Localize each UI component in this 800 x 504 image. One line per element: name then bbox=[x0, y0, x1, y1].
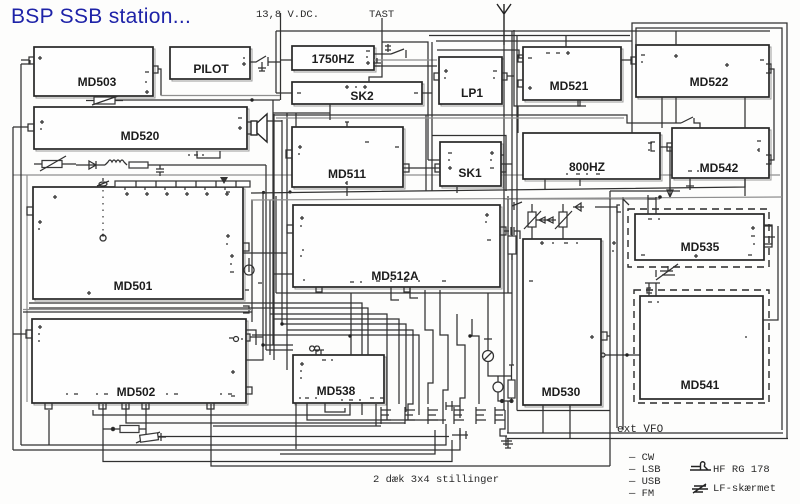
wire vertical 512 top bbox=[511, 31, 513, 365]
speaker SP1 bbox=[247, 114, 267, 142]
antenna feed down bbox=[503, 45, 505, 410]
wire MD521 shield to 800HZ bbox=[517, 106, 519, 133]
pin hook MD522 left bbox=[631, 57, 636, 64]
junction dot 290 bbox=[288, 190, 291, 193]
wire vertical 517 top bbox=[517, 35, 610, 411]
antenna bbox=[497, 4, 511, 45]
svg-text:800HZ: 800HZ bbox=[569, 160, 605, 174]
wire 1750HZ left pin bbox=[281, 59, 292, 61]
wire MD535 right loop bbox=[764, 226, 772, 244]
pin hook 800HZ right bbox=[651, 142, 655, 151]
tick marks MD535 bbox=[641, 219, 755, 258]
wire MD521 to MD522 bbox=[621, 59, 631, 61]
wire MD522 top drop bbox=[675, 31, 677, 45]
block MD511 bbox=[292, 127, 405, 189]
svg-text:MD530: MD530 bbox=[542, 385, 581, 399]
wire vertical 282 bbox=[281, 120, 283, 324]
potentiometer under MD520 bbox=[34, 156, 76, 171]
wire SK2 right connect bbox=[422, 92, 432, 94]
bus under MD520 (behind blocks) bbox=[13, 174, 780, 176]
pin hook MD542 right bbox=[766, 155, 771, 164]
wire vertical 252 bbox=[251, 200, 253, 322]
dotted gang line bbox=[102, 190, 104, 232]
wire bus y118 gray bbox=[276, 117, 624, 119]
wire vertical 610 bbox=[610, 191, 680, 466]
shield box SK1 bbox=[432, 136, 506, 194]
wire vertical 617 bbox=[595, 207, 617, 428]
wire MD511 top pin bbox=[345, 122, 349, 127]
switch to MD542 top bbox=[681, 117, 700, 128]
pin hook MD522 right bbox=[766, 64, 771, 73]
svg-text:MD535: MD535 bbox=[681, 240, 720, 254]
svg-text:— USB: — USB bbox=[628, 476, 661, 488]
pin hook MD512A left bbox=[287, 225, 293, 233]
wire left edge outer bbox=[20, 64, 22, 445]
capacitor C2 bbox=[156, 165, 164, 176]
diode D1 bbox=[76, 161, 105, 169]
wires MD541 top bbox=[645, 270, 660, 296]
wires MD535 area bbox=[648, 195, 775, 280]
wire PILOT right switch bbox=[250, 56, 280, 71]
svg-text:MD501: MD501 bbox=[114, 279, 153, 293]
wire MD501 to MD512A bbox=[243, 252, 287, 254]
svg-text:HF RG 178: HF RG 178 bbox=[713, 464, 770, 476]
wire MD512A right circuit bbox=[504, 227, 520, 239]
tick marks SK2 bbox=[297, 85, 418, 93]
switch after 1750HZ bbox=[374, 44, 406, 58]
pin hook MD501 right bbox=[243, 243, 249, 251]
pin hooks MD502 bottom bbox=[45, 403, 214, 409]
svg-text:MD542: MD542 bbox=[700, 161, 739, 175]
block MD512A bbox=[293, 205, 502, 289]
shield box MD502 top dark bbox=[23, 311, 252, 313]
shield box MD512A left bbox=[275, 196, 277, 293]
pin hook MD512A right bbox=[500, 227, 506, 235]
pin hook MD501 left bbox=[27, 207, 33, 215]
wire SK2 bottom to MD511 bbox=[273, 104, 330, 120]
ground symbol bottom bbox=[503, 439, 513, 449]
tick marks MD530 bbox=[529, 241, 594, 339]
T-bar trimmer top bbox=[446, 401, 460, 411]
shield dashed box MD535 bbox=[628, 209, 769, 267]
T-bar trimmer mid bbox=[452, 430, 468, 440]
block MD535 bbox=[635, 214, 764, 260]
svg-text:— LSB: — LSB bbox=[628, 464, 661, 476]
wires right of SK1 bbox=[403, 42, 523, 191]
outer box bottom line2 bbox=[507, 438, 788, 440]
junction dot pilot bus bbox=[250, 98, 253, 101]
block MD503 bbox=[34, 47, 155, 98]
wire MD502 left stub bbox=[13, 333, 26, 335]
bus y198 gray bbox=[251, 197, 782, 200]
wire MD522 bottom drop2 bbox=[661, 97, 663, 128]
wire left outer vertical bbox=[12, 127, 14, 450]
tick marks 1750HZ bbox=[366, 51, 370, 65]
svg-text:MD538: MD538 bbox=[317, 384, 356, 398]
wire MD503 to PILOT step bbox=[153, 66, 161, 96]
svg-text:MD541: MD541 bbox=[681, 378, 720, 392]
connector hook ext VFO bbox=[500, 410, 507, 436]
wires MD538 bottom drops bbox=[307, 398, 446, 420]
pin hook MD503 left bbox=[21, 57, 34, 64]
shield box MD512A right bbox=[507, 196, 509, 293]
resistor under MD502 bbox=[103, 426, 166, 444]
junction dot 263 bbox=[262, 191, 265, 194]
wire left gray vertical bbox=[26, 175, 28, 402]
shield box MD521 bbox=[514, 30, 580, 106]
resistor right of MD512A bbox=[508, 230, 516, 260]
pin hook MD542 left bbox=[667, 143, 672, 151]
wire top to LP1 corner bbox=[382, 42, 428, 160]
wire bus y115 to MD542 bbox=[273, 115, 681, 123]
junction dot 800HZ bbox=[658, 195, 662, 199]
wire bus y40 bbox=[436, 40, 632, 42]
tick marks 800HZ bbox=[566, 143, 652, 174]
wire SK2 left pin bbox=[276, 92, 292, 94]
wire MD502 right hooks bbox=[246, 330, 256, 345]
svg-text:LF-skærmet: LF-skærmet bbox=[713, 483, 776, 495]
wire MD542 bottom pin bbox=[686, 178, 694, 190]
hook connector 623 bbox=[617, 205, 621, 212]
capacitor at SK2 top bbox=[373, 58, 381, 66]
wire vertical 287 bbox=[286, 113, 288, 370]
wire 800HZ right to MD542 left bbox=[660, 146, 672, 148]
svg-text:BSP SSB station...: BSP SSB station... bbox=[11, 5, 191, 28]
wire MD541 right to MD535 bbox=[763, 226, 778, 320]
tick marks MD542 bbox=[688, 141, 761, 171]
wire MD503 left pin bbox=[21, 60, 30, 64]
tick marks MD512A bbox=[300, 213, 491, 282]
pin hook MD530 right bbox=[601, 332, 610, 340]
svg-text:— CW: — CW bbox=[628, 452, 655, 464]
svg-text:PILOT: PILOT bbox=[193, 62, 229, 76]
outer shield box right bbox=[632, 23, 787, 439]
pin hook MD502 right bbox=[246, 387, 252, 394]
trimmer bank bbox=[381, 407, 505, 424]
resistor R2 bbox=[129, 162, 266, 168]
wire into MD538 left bbox=[263, 345, 293, 350]
coil bar above MD501 bbox=[115, 177, 250, 190]
meter M1 bbox=[483, 339, 512, 376]
wire vertical 270 bbox=[269, 200, 271, 355]
block LP1 bbox=[439, 57, 504, 106]
block MD502 bbox=[32, 319, 248, 405]
svg-text:MD503: MD503 bbox=[78, 75, 117, 89]
junction dots column bbox=[261, 322, 471, 346]
coil L1 bbox=[105, 160, 127, 165]
trimmer above MD501 bbox=[97, 178, 109, 186]
wires middle column verticals bbox=[376, 287, 488, 426]
wire top bus bbox=[276, 31, 770, 93]
wire into MD512A left low bbox=[274, 273, 293, 275]
shield dashed box MD541 bbox=[634, 290, 769, 403]
wire TAST down bbox=[369, 18, 382, 82]
pin hook MD501 right2 bbox=[243, 306, 249, 313]
wire 13,8V feed down bbox=[280, 13, 282, 100]
wires below MD512A fan bbox=[29, 287, 512, 390]
wire MD511 bottom pin bbox=[346, 187, 348, 196]
shield box MD511 bbox=[274, 114, 426, 360]
gang symbol bbox=[100, 234, 106, 241]
wire MD530 bottom stubs bbox=[543, 405, 570, 438]
arrow wire MD542 gap bbox=[667, 147, 673, 197]
wire MD522 bottom drop bbox=[675, 97, 677, 123]
legend LF-skaermet bbox=[692, 483, 776, 495]
tick marks MD535 outside bbox=[612, 241, 616, 251]
tick marks MD520 bbox=[40, 118, 242, 155]
svg-text:LP1: LP1 bbox=[461, 86, 483, 100]
pin hook MD521 left2 bbox=[518, 80, 523, 87]
wire MD502 to MD538 bbox=[246, 345, 263, 360]
block SK2 bbox=[292, 82, 424, 106]
svg-text:SK2: SK2 bbox=[350, 89, 374, 103]
wire MD521 bottom to 800HZ top bbox=[578, 100, 586, 106]
block MD538 bbox=[293, 355, 386, 405]
wire MD538 top hooks bbox=[310, 346, 324, 355]
tick marks MD522 bbox=[641, 54, 764, 67]
svg-text:— FM: — FM bbox=[628, 488, 654, 500]
wire MD522 right pin to column bbox=[769, 69, 774, 160]
tick marks MD521 bbox=[528, 51, 570, 90]
tick marks PILOT bbox=[242, 58, 246, 66]
block PILOT bbox=[170, 47, 252, 81]
svg-text:MD521: MD521 bbox=[550, 79, 589, 93]
wire vertical 623 with switch bbox=[623, 197, 629, 430]
outer box bottom line bbox=[507, 432, 783, 434]
tick marks MD511 bbox=[298, 142, 399, 185]
svg-text:13,8 V.DC.: 13,8 V.DC. bbox=[256, 9, 319, 21]
wire SK2 to LP1 bus2 bbox=[374, 65, 437, 67]
pin hook LP1 left bbox=[434, 73, 439, 80]
legend HF RG 178 bbox=[690, 462, 770, 476]
pin hook MD502 right upper bbox=[246, 334, 263, 341]
wire MD530 right connector bbox=[601, 353, 640, 357]
wires below MD502 fan bbox=[13, 403, 610, 466]
block 800HZ bbox=[523, 133, 662, 181]
wire MD542 top right drop bbox=[744, 97, 746, 128]
svg-text:MD522: MD522 bbox=[690, 75, 729, 89]
block SK1 bbox=[440, 142, 503, 188]
wire MD503 right to bus gray bbox=[161, 95, 280, 97]
pin hook SK1 right bbox=[501, 155, 506, 172]
shield box MD502 top gray bbox=[23, 309, 252, 311]
wire SK1 right to bus bbox=[506, 163, 512, 165]
wire vertical 263 bbox=[262, 192, 264, 345]
wire vertical 266 bbox=[265, 165, 267, 350]
pin hook MD511 left bbox=[286, 150, 292, 158]
svg-text:MD502: MD502 bbox=[117, 385, 156, 399]
tick marks MD501 bbox=[38, 192, 262, 295]
tick row MD501 top bbox=[125, 192, 229, 196]
pin hook MD521 left bbox=[518, 55, 523, 62]
pin hook MD511 right bbox=[403, 164, 409, 172]
svg-text:MD520: MD520 bbox=[121, 129, 160, 143]
VXO circuit above MD530 bbox=[505, 199, 660, 239]
lamp on MD502 right bbox=[234, 337, 244, 342]
pin hook MD520 left bbox=[13, 124, 34, 131]
tick marks SK1 bbox=[448, 151, 494, 170]
wire SK2 to LP1 bus bbox=[374, 59, 437, 61]
block MD522 bbox=[636, 45, 771, 99]
svg-text:MD511: MD511 bbox=[328, 167, 366, 181]
svg-text:2 dæk 3x4 stillinger: 2 dæk 3x4 stillinger bbox=[373, 474, 499, 486]
block MD530 bbox=[523, 239, 603, 407]
pin hook LP1 right bbox=[502, 73, 507, 80]
svg-text:ext VFO: ext VFO bbox=[617, 424, 664, 436]
tick marks MD541 bbox=[648, 302, 747, 337]
mic circle bbox=[493, 365, 515, 433]
lamp on MD501 edge bbox=[244, 258, 254, 275]
pin hook MD502 left bbox=[26, 330, 32, 338]
junction dot MD541 left wire bbox=[625, 353, 628, 356]
wire MD520 down pin bbox=[197, 151, 220, 158]
block MD542 bbox=[672, 128, 771, 180]
svg-text:SK1: SK1 bbox=[458, 166, 482, 180]
wire resistor bus dark bbox=[115, 99, 280, 101]
wire LP1 right stub bbox=[507, 75, 514, 77]
block MD521 bbox=[523, 47, 623, 102]
tick marks MD503 bbox=[38, 56, 149, 94]
block 1750HZ bbox=[292, 46, 376, 72]
wire speaker to bus bbox=[267, 120, 282, 122]
pin hook SK1 left bbox=[435, 164, 440, 172]
wire SK2 to MD511 top drop bbox=[295, 113, 297, 127]
bus y192 right bbox=[251, 178, 745, 193]
block MD520 bbox=[34, 107, 249, 151]
tick marks MD538 bbox=[299, 360, 374, 400]
T-bar trimmer right bbox=[501, 436, 512, 446]
wire bus y35 bbox=[429, 36, 630, 48]
block MD501 bbox=[33, 187, 245, 301]
svg-text:1750HZ: 1750HZ bbox=[312, 52, 355, 66]
tick marks MD502 bbox=[38, 325, 622, 396]
wires below 800HZ bbox=[545, 178, 745, 196]
block MD541 bbox=[640, 296, 763, 399]
tick marks LP1 bbox=[444, 69, 497, 78]
wire vertical 273 bbox=[272, 100, 274, 345]
resistor R-MD503 bbox=[86, 96, 123, 105]
